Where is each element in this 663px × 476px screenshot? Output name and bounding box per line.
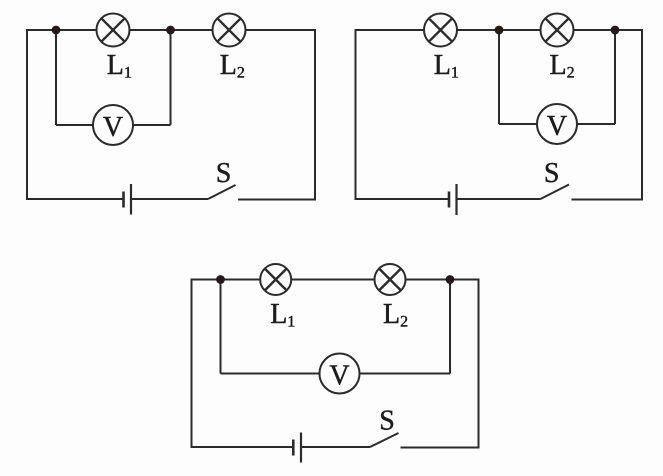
voltmeter V2 — [537, 104, 577, 144]
wire: circuit2 voltmeter branch left vertical — [498, 30, 500, 124]
wire: circuit2 left side — [355, 30, 357, 199]
wire: circuit2 top conductor — [355, 29, 644, 31]
battery B3 — [293, 433, 301, 463]
wire: circuit3 top conductor — [191, 279, 480, 281]
lamp L2 (circuit1) — [213, 14, 246, 47]
wire: circuit2 switch contact to right corner — [572, 199, 644, 201]
battery B2 — [449, 184, 457, 215]
battery B1 — [124, 184, 132, 215]
switch S3 lever — [370, 433, 399, 447]
svg-text:V: V — [547, 111, 567, 142]
wire: circuit1 voltmeter branch horizontal — [56, 124, 171, 126]
wire: circuit3 switch contact to right corner — [401, 447, 480, 449]
wire: circuit3 left side — [191, 280, 193, 448]
switch S2 lever — [541, 185, 570, 200]
voltmeter V3 — [320, 354, 360, 394]
wire: circuit1 voltmeter branch left vertical — [55, 30, 57, 125]
node: circuit3 junction dot left — [216, 275, 225, 284]
wire: circuit2 right side — [641, 30, 643, 199]
wire: circuit3 battery to switch pivot — [302, 446, 370, 448]
wire: circuit1 right side — [314, 30, 316, 199]
wire: circuit3 voltmeter branch horizontal — [221, 373, 451, 375]
node: circuit3 junction dot right — [446, 275, 455, 284]
wire: circuit2 voltmeter branch horizontal — [499, 123, 615, 125]
node: circuit2 junction dot right — [611, 26, 620, 35]
lamp L2 (circuit2) — [541, 14, 574, 47]
wire: circuit2 voltmeter branch right vertical — [614, 30, 616, 124]
wire: circuit1 switch contact to right corner — [238, 199, 316, 201]
lamp L1 (circuit1) — [97, 14, 130, 47]
node: circuit1 junction dot left — [52, 26, 61, 35]
wire: circuit1 left side — [26, 30, 28, 199]
wire: circuit3 voltmeter branch right vertical — [449, 280, 451, 374]
lamp L2 (circuit3) — [375, 264, 406, 295]
wire: circuit1 voltmeter branch right vertical — [170, 30, 172, 125]
svg-text:V: V — [103, 112, 123, 143]
wire: circuit1 battery to switch pivot — [132, 198, 208, 200]
wire: circuit1 top conductor — [26, 29, 316, 31]
wire: circuit3 voltmeter branch left vertical — [220, 280, 222, 374]
wire: circuit2 battery to switch pivot — [458, 198, 541, 200]
node: circuit1 junction dot right — [166, 26, 175, 35]
voltmeter V1 — [93, 105, 133, 145]
node: circuit2 junction dot left — [495, 26, 504, 35]
svg-text:S: S — [216, 158, 232, 189]
lamp L1 (circuit2) — [424, 14, 457, 47]
svg-text:V: V — [329, 361, 349, 392]
lamp L1 (circuit3) — [260, 264, 291, 295]
switch S1 lever — [208, 185, 236, 199]
wire: circuit3 bottom, corner to battery — [191, 446, 293, 448]
svg-text:S: S — [379, 406, 395, 437]
svg-text:S: S — [544, 158, 560, 189]
wire: circuit1 bottom, corner to battery — [26, 198, 123, 200]
wire: circuit2 bottom, corner to battery — [355, 198, 449, 200]
wire: circuit3 right side — [478, 280, 480, 448]
